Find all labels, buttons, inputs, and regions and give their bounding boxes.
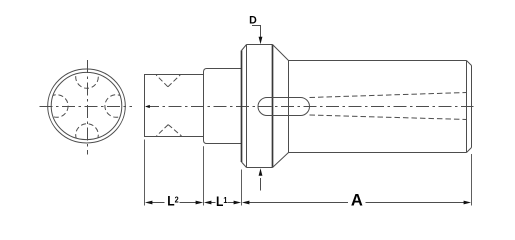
svg-text:D: D [249, 15, 257, 27]
flange left face [241, 51, 243, 163]
dimension line L2 [152, 202, 197, 204]
arrow L2 right [196, 201, 204, 205]
arrow D up [259, 168, 263, 176]
hidden hole bottom [76, 124, 99, 147]
main centerline [146, 106, 474, 108]
arrow A left [242, 201, 250, 205]
D leader line [252, 26, 261, 38]
svg-text:L1: L1 [216, 193, 228, 209]
arrow L1 left [204, 201, 212, 205]
end view inner bore circle [51, 72, 122, 139]
body bottom edge [289, 152, 467, 154]
body top edge [289, 60, 467, 62]
end view outer circle [48, 69, 126, 143]
body chamfer top-right [467, 61, 472, 66]
hidden chevron bottom [157, 125, 182, 136]
hidden hole right [105, 95, 128, 118]
extension line A right [471, 154, 473, 206]
extension line L2 left [144, 140, 146, 206]
body chamfer bottom-right [467, 148, 472, 153]
cross slot stadium [258, 98, 310, 116]
hidden hole left [46, 95, 69, 118]
flange right face [272, 45, 274, 168]
body right face [471, 66, 473, 148]
arrow D down [259, 37, 263, 45]
hidden chevron top [156, 75, 180, 87]
end view vertical centerline [87, 60, 89, 155]
flange chamfer bottom-left [242, 162, 247, 168]
extension line L1-A [241, 170, 243, 206]
flange chamfer line [246, 45, 248, 168]
D arrow lower stem [260, 178, 262, 191]
centerline start arrow [145, 105, 150, 108]
extension line L2-L1 [203, 146, 205, 205]
hidden taper line bottom [310, 115, 467, 120]
collar section outline [204, 69, 242, 144]
dimension line L1 [211, 202, 235, 204]
body chamfer line right [466, 61, 468, 153]
arrow L1 right [234, 201, 242, 205]
flange bottom edge [247, 167, 273, 169]
cone transition bottom [273, 153, 289, 168]
hidden hole top [76, 66, 99, 89]
shaft small-end outline [145, 75, 204, 137]
svg-text:A: A [351, 190, 363, 209]
end view horizontal centerline [40, 106, 133, 108]
body left edge [288, 61, 290, 153]
arrow L2 left [145, 201, 153, 205]
hidden taper line top [310, 93, 467, 98]
arrow A right [464, 201, 472, 205]
flange top edge [247, 44, 273, 46]
dimension line A [249, 202, 465, 204]
svg-text:L2: L2 [167, 193, 179, 209]
cone transition top [273, 45, 289, 61]
flange chamfer top-left [242, 45, 247, 51]
